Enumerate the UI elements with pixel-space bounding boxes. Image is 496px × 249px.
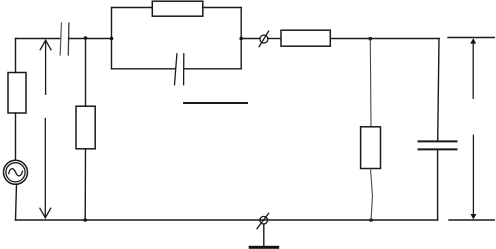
wire R4 to right corner: [330, 38, 439, 40]
wire C1 to parallel block: [69, 38, 112, 40]
node junction top of R5: [369, 37, 373, 41]
annotation line bottom right: [449, 219, 494, 221]
wire left rail upper: [15, 39, 17, 73]
wire node to R5: [369, 39, 372, 127]
node marker (phasor symbol) bottom: [257, 213, 269, 228]
source V1 (AC): [4, 160, 28, 184]
wire node marker to R4: [268, 38, 281, 40]
wire block bottom left: [112, 68, 175, 70]
wire block bottom right: [184, 68, 241, 70]
node junction bottom of R2: [83, 218, 87, 222]
label underline: [184, 102, 247, 104]
resistor R2 (middle vertical): [76, 106, 95, 149]
capacitor C2 (block bottom): [175, 54, 184, 85]
voltage arrow up (left): [40, 40, 51, 94]
node junction block right: [239, 37, 243, 41]
resistor R4 (series horizontal): [281, 30, 330, 46]
node junction bottom of R5: [369, 218, 373, 222]
wire C3 to bottom rail: [437, 149, 439, 220]
parallel block right side wire: [240, 8, 242, 69]
node marker (phasor symbol) top: [259, 31, 269, 47]
voltage arrow down (left): [40, 118, 51, 217]
ground stem: [263, 224, 265, 246]
parallel block left side wire: [111, 8, 113, 69]
wire source to bottom rail: [16, 184, 17, 220]
wire bottom rail: [16, 219, 438, 221]
wire R2 to bottom rail: [84, 149, 86, 220]
resistor R3 (block top): [152, 1, 203, 16]
wire top-left horizontal: [16, 38, 61, 40]
node junction at top of R2: [84, 36, 88, 40]
wire block top left: [112, 7, 153, 9]
resistor R1 (left vertical): [8, 73, 26, 114]
wire R1 to source: [15, 113, 17, 160]
wire block top right: [203, 7, 241, 9]
capacitor C3 (output): [419, 141, 457, 149]
ground: [249, 246, 280, 249]
wire node to R2: [85, 39, 87, 107]
voltage arrow down (right): [470, 135, 476, 219]
annotation line top right: [448, 37, 494, 39]
voltage arrow up (right): [470, 38, 476, 98]
resistor R5 (right vertical): [361, 127, 381, 169]
node junction block left: [110, 37, 114, 41]
wire right corner down to C3: [438, 39, 439, 142]
wire R5 to bottom rail: [371, 169, 373, 221]
capacitor C1 (series input): [60, 23, 69, 55]
wire block to node marker: [241, 38, 260, 40]
